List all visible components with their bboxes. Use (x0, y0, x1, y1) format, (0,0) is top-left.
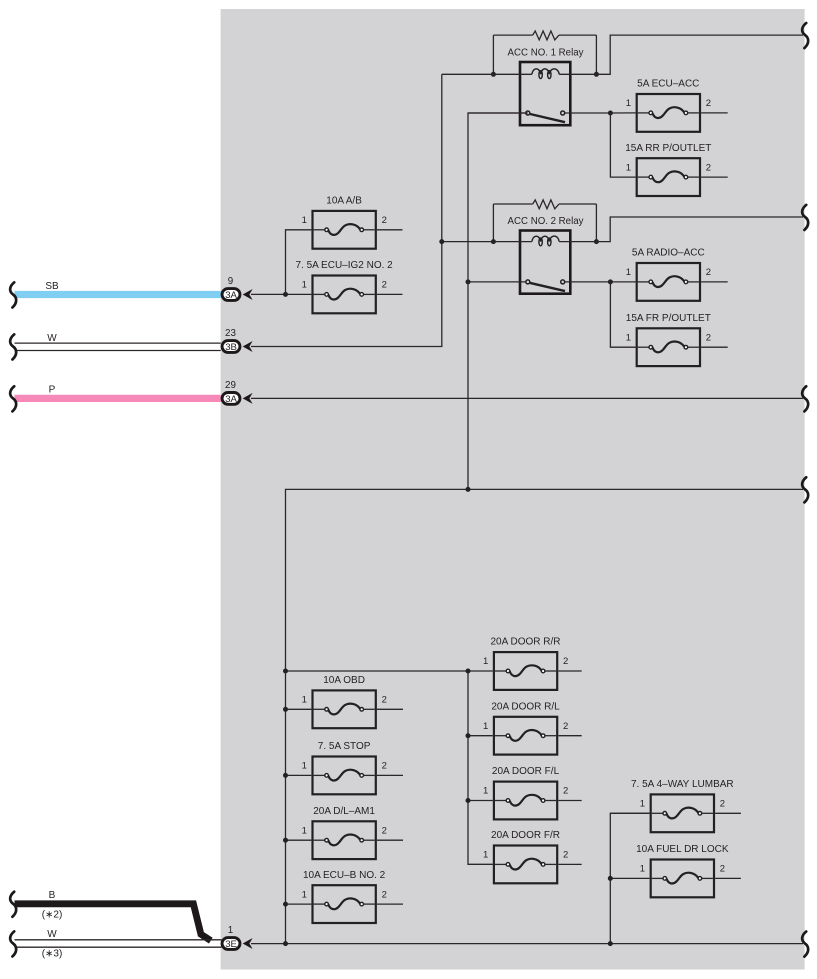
fuse 7. 5A 4-WAY LUMBAR (610, 779, 741, 832)
junction (door bus / F-L) (466, 798, 471, 803)
resistor (ACC NO. 2 Relay bypass) (493, 200, 596, 242)
wire SB (light blue) (15, 281, 221, 295)
svg-text:(∗3): (∗3) (42, 949, 63, 960)
wire (3B row to relay coils riser) (251, 74, 442, 346)
junction (bus / 3E row) (608, 941, 613, 946)
connector 3A pin 9 (222, 276, 240, 301)
background panel (221, 9, 805, 970)
wire (lumbar-fuel bus) (610, 813, 649, 943)
svg-text:5A RADIO–ACC: 5A RADIO–ACC (632, 248, 705, 259)
svg-text:1: 1 (302, 215, 307, 226)
svg-text:1: 1 (483, 721, 488, 732)
svg-text:2: 2 (382, 215, 387, 226)
svg-text:2: 2 (382, 825, 387, 836)
svg-text:7. 5A 4–WAY LUMBAR: 7. 5A 4–WAY LUMBAR (631, 779, 734, 790)
wire (ACC1 coil out to page edge) (596, 35, 803, 74)
svg-text:1: 1 (302, 889, 307, 900)
svg-text:15A RR P/OUTLET: 15A RR P/OUTLET (625, 143, 711, 154)
svg-text:29: 29 (225, 380, 236, 391)
wire (SB row to fuses) (251, 293, 311, 295)
svg-text:1: 1 (626, 267, 631, 278)
fuse 10A ECU-B NO. 2 (286, 870, 404, 923)
svg-text:SB: SB (45, 281, 59, 292)
svg-text:20A DOOR F/R: 20A DOOR F/R (491, 830, 560, 841)
wire (door fuse bus) (468, 671, 493, 864)
junction (bus / fuel dr lock) (608, 876, 613, 881)
svg-text:2: 2 (382, 280, 387, 291)
svg-text:1: 1 (483, 850, 488, 861)
wire (vertical feed to relay switches and lower bank) (468, 113, 528, 489)
junction (bypass right / output) (594, 72, 599, 77)
fuse 20A DOOR R/L (468, 701, 582, 754)
fuse 10A OBD (286, 675, 404, 728)
wire (mid distribution row to page edge) (286, 489, 804, 943)
wire break (right, 3E row) (802, 932, 808, 957)
svg-text:3B: 3B (225, 342, 237, 353)
junction (SB row / A-B fuse riser) (283, 292, 288, 297)
wire break (left, B) (10, 892, 16, 917)
svg-text:2: 2 (706, 267, 711, 278)
wire (riser to 10A A/B) (286, 230, 312, 295)
wire W (3B row) (15, 333, 221, 351)
fuse 5A ECU-ACC (626, 79, 728, 132)
svg-text:2: 2 (382, 889, 387, 900)
svg-text:1: 1 (302, 280, 307, 291)
svg-text:2: 2 (706, 98, 711, 109)
junction (bypass2 right / output) (594, 239, 599, 244)
wire (ACC2 coil out to page edge) (596, 217, 803, 242)
fuse 10A FUEL DR LOCK (610, 844, 741, 897)
fuse 7. 5A STOP (286, 741, 404, 794)
svg-text:P: P (49, 384, 56, 395)
svg-text:20A DOOR R/L: 20A DOOR R/L (491, 701, 560, 712)
wire (ACC2 switch to 5A RADIO-ACC) (610, 281, 635, 283)
svg-text:20A DOOR R/R: 20A DOOR R/R (490, 637, 560, 648)
svg-text:1: 1 (483, 786, 488, 797)
arrow (into 3B/23) (243, 341, 253, 352)
junction (line2 on distribution row) (466, 487, 471, 492)
svg-text:B: B (49, 890, 56, 901)
junction (left bus / 3E row) (283, 941, 288, 946)
wire break (right, distribution row) (802, 477, 808, 502)
fuse 20A DOOR R/R (483, 637, 582, 690)
wire (drop to 15A RR P/OUTLET) (610, 113, 635, 177)
svg-text:23: 23 (225, 328, 236, 339)
svg-text:10A OBD: 10A OBD (323, 675, 365, 686)
svg-text:10A ECU–B NO. 2: 10A ECU–B NO. 2 (303, 870, 386, 881)
svg-text:1: 1 (302, 825, 307, 836)
svg-text:2: 2 (563, 850, 568, 861)
svg-text:15A FR P/OUTLET: 15A FR P/OUTLET (626, 313, 711, 324)
junction (bypass left on coil line) (491, 72, 496, 77)
svg-text:W: W (47, 333, 57, 344)
svg-text:2: 2 (382, 695, 387, 706)
wire (P row across panel) (251, 397, 803, 399)
svg-text:10A FUEL DR LOCK: 10A FUEL DR LOCK (636, 844, 729, 855)
fuse 20A DOOR F/L (468, 766, 582, 819)
wire break (left, W bottom) (10, 931, 16, 956)
svg-text:2: 2 (720, 799, 725, 810)
svg-text:10A A/B: 10A A/B (326, 196, 362, 207)
wire (3E row across panel) (251, 943, 803, 945)
wire P (pink) (15, 384, 221, 398)
connector 3B pin 23 (222, 328, 240, 353)
svg-text:20A DOOR F/L: 20A DOOR F/L (492, 766, 560, 777)
junction (door bus top) (466, 669, 471, 674)
svg-text:1: 1 (302, 761, 307, 772)
relay ACC NO. 2 Relay (442, 216, 611, 294)
arrow (into 3A/9) (243, 289, 253, 300)
wire break (right, ACC2 feed) (802, 205, 808, 230)
wire break (left, P) (10, 386, 16, 411)
fuse 20A DOOR F/R (468, 830, 582, 883)
svg-text:9: 9 (228, 276, 233, 287)
relay ACC NO. 1 Relay (442, 48, 611, 126)
junction (left bus / STOP) (283, 773, 288, 778)
svg-text:2: 2 (563, 721, 568, 732)
svg-text:1: 1 (483, 656, 488, 667)
junction (ACC2 switch out / FR P-OUTLET drop) (608, 279, 613, 284)
arrow (into 3E/1) (243, 938, 253, 949)
resistor (ACC NO. 1 Relay bypass) (493, 31, 596, 74)
fuse 10A A/B (302, 196, 403, 249)
junction (left bus / ECU-B) (283, 902, 288, 907)
fuse 5A RADIO-ACC (626, 248, 728, 301)
wire B (thick black) (15, 890, 211, 941)
svg-text:W: W (47, 929, 57, 940)
wire (row to 20A DOOR R/R) (286, 670, 493, 672)
svg-text:1: 1 (640, 799, 645, 810)
svg-text:2: 2 (563, 786, 568, 797)
junction (bypass2 left on coil line) (491, 239, 496, 244)
svg-text:1: 1 (228, 925, 233, 936)
svg-text:2: 2 (720, 864, 725, 875)
svg-text:3A: 3A (225, 290, 237, 301)
fuse 7. 5A ECU-IG2 NO. 2 (295, 260, 402, 313)
svg-text:ACC NO. 1 Relay: ACC NO. 1 Relay (508, 48, 584, 59)
junction (ACC1 switch out / RR P-OUTLET drop) (608, 111, 613, 116)
svg-text:1: 1 (302, 695, 307, 706)
svg-text:5A ECU–ACC: 5A ECU–ACC (637, 79, 699, 90)
svg-text:7. 5A STOP: 7. 5A STOP (318, 741, 371, 752)
wire break (left, SB) (10, 282, 16, 307)
connector 3E pin 1 (222, 925, 240, 950)
junction (door bus / R-L) (466, 733, 471, 738)
svg-text:2: 2 (382, 761, 387, 772)
fuse 15A RR P/OUTLET (625, 143, 727, 196)
svg-text:ACC NO. 2 Relay: ACC NO. 2 Relay (508, 216, 584, 227)
svg-text:2: 2 (706, 332, 711, 343)
svg-text:1: 1 (626, 332, 631, 343)
fuse 20A D/L-AM1 (286, 806, 404, 859)
svg-text:1: 1 (626, 98, 631, 109)
svg-text:7. 5A ECU–IG2 NO. 2: 7. 5A ECU–IG2 NO. 2 (295, 260, 393, 271)
svg-text:(∗2): (∗2) (42, 910, 63, 921)
wire (ACC1 switch to 5A ECU-ACC) (610, 112, 635, 114)
junction (line1 tap to ACC2 coil) (439, 239, 444, 244)
wire W (3E row) (15, 929, 222, 960)
svg-text:3A: 3A (225, 394, 237, 405)
junction (left bus / OBD) (283, 707, 288, 712)
wire break (left, W) (10, 334, 16, 359)
svg-text:2: 2 (563, 656, 568, 667)
fuse 15A FR P/OUTLET (626, 313, 728, 366)
wire break (right, top feed) (802, 23, 808, 48)
wire break (right, P row) (802, 386, 808, 411)
arrow (into 3A/29) (243, 393, 253, 404)
junction (line2 tap to ACC2 switch) (466, 279, 471, 284)
wire (drop to 15A FR P/OUTLET) (610, 282, 635, 347)
svg-text:1: 1 (626, 162, 631, 173)
connector 3A pin 29 (222, 380, 240, 405)
svg-text:1: 1 (640, 864, 645, 875)
svg-text:3E: 3E (225, 939, 237, 950)
junction (left bus / D-L AM1) (283, 838, 288, 843)
junction (left bus / door row) (283, 669, 288, 674)
svg-text:20A D/L–AM1: 20A D/L–AM1 (313, 806, 375, 817)
svg-text:2: 2 (706, 162, 711, 173)
